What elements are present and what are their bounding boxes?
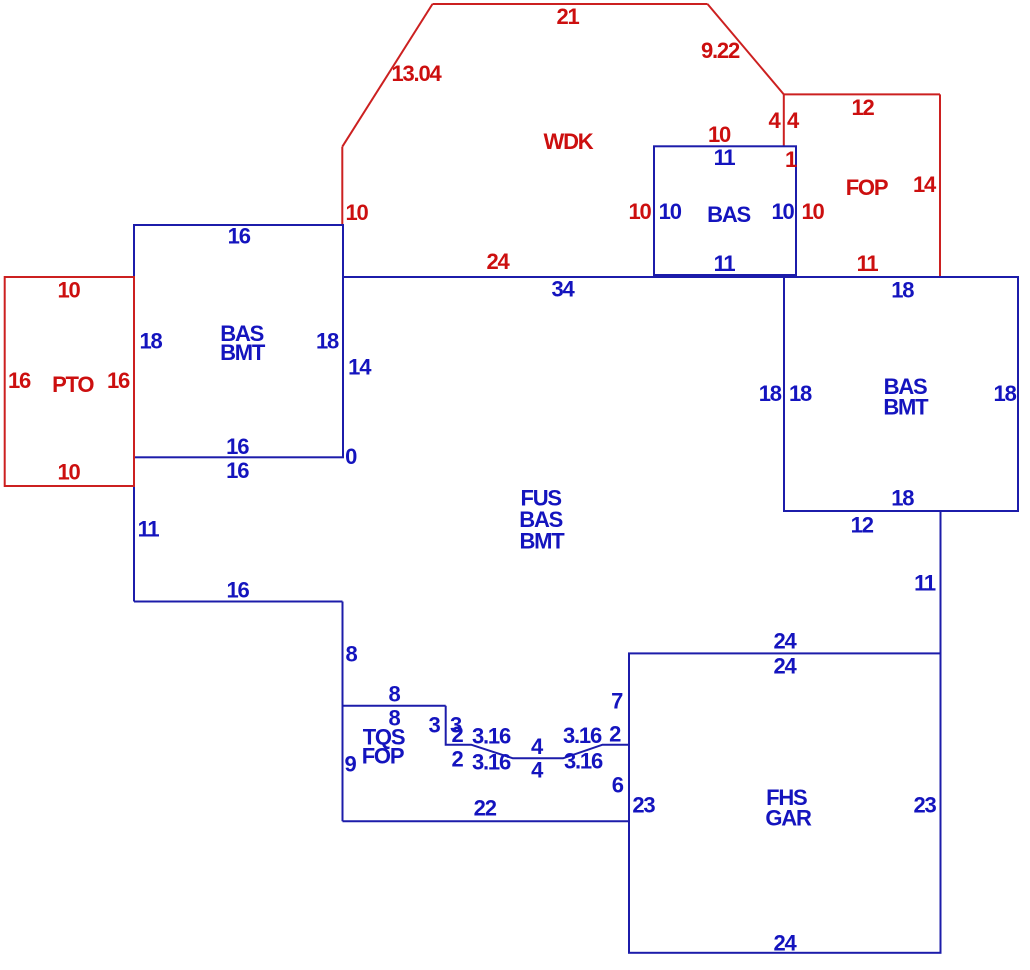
svg-text:PTO: PTO [52,372,94,397]
wire red WDK left vertical (10) [341,147,343,225]
svg-text:11: 11 [138,517,160,542]
wire red WDK left diagonal [342,4,432,147]
svg-text:2: 2 [609,722,621,747]
svg-text:13.04: 13.04 [391,61,442,86]
wire dip polyline 3 2 3.16 4 3.16 2 [446,706,629,759]
wire red WDK right vertical (4) [783,94,785,146]
svg-text:3.16: 3.16 [563,723,602,748]
svg-text:21: 21 [556,4,579,29]
svg-text:3: 3 [428,713,440,738]
svg-text:GAR: GAR [765,806,812,831]
wire red WDK top [433,3,708,5]
node BAS BMT left box [134,225,343,457]
svg-text:4: 4 [531,734,544,759]
wire horizontal 16 [134,601,343,603]
svg-text:10: 10 [628,199,651,224]
svg-text:11: 11 [714,251,736,276]
svg-text:18: 18 [316,329,339,354]
svg-text:16: 16 [8,368,31,393]
svg-text:11: 11 [857,251,879,276]
wire TQS bottom 22 [343,820,630,822]
svg-text:3.16: 3.16 [472,750,511,775]
svg-text:18: 18 [891,278,914,303]
svg-text:4: 4 [531,758,544,783]
svg-text:16: 16 [107,368,130,393]
svg-text:14: 14 [913,172,937,197]
svg-text:24: 24 [486,249,510,274]
svg-text:10: 10 [659,199,682,224]
svg-text:23: 23 [632,793,655,818]
svg-text:18: 18 [789,381,812,406]
svg-text:16: 16 [226,434,249,459]
svg-text:18: 18 [139,329,162,354]
svg-text:7: 7 [611,689,623,714]
svg-text:1: 1 [785,147,797,172]
svg-text:10: 10 [771,199,794,224]
svg-text:10: 10 [801,199,824,224]
wire vertical 11 right [940,511,942,653]
svg-text:16: 16 [226,458,249,483]
svg-text:12: 12 [851,95,874,120]
svg-text:16: 16 [226,578,249,603]
svg-text:0: 0 [345,444,357,469]
svg-text:10: 10 [57,460,80,485]
svg-text:24: 24 [773,629,797,654]
svg-text:11: 11 [714,145,736,170]
node PTO rect [5,277,134,486]
svg-text:8: 8 [345,642,357,667]
svg-text:3.16: 3.16 [564,749,603,774]
svg-text:FOP: FOP [846,175,888,200]
svg-text:8: 8 [388,682,400,707]
svg-text:2: 2 [451,722,463,747]
wire TQS top 8 [343,705,446,707]
wire red WDK right diagonal [708,4,784,94]
svg-text:18: 18 [891,486,914,511]
svg-text:BMT: BMT [883,395,929,420]
svg-text:12: 12 [851,513,874,538]
svg-text:9: 9 [344,752,356,777]
svg-text:9.22: 9.22 [701,38,740,63]
svg-text:11: 11 [914,571,936,596]
svg-text:24: 24 [773,931,797,956]
svg-text:3.16: 3.16 [472,724,511,749]
svg-text:WDK: WDK [544,129,594,154]
svg-text:10: 10 [345,200,368,225]
svg-text:BMT: BMT [220,340,266,365]
node FHS GAR box [629,653,941,952]
node BAS box [654,146,796,275]
svg-text:22: 22 [474,796,497,821]
svg-text:BAS: BAS [707,202,750,227]
svg-text:24: 24 [773,654,797,679]
svg-text:FOP: FOP [362,744,404,769]
wire vertical 8 and 9 [342,602,344,822]
svg-text:BMT: BMT [519,528,565,553]
svg-text:4: 4 [768,108,781,133]
svg-text:2: 2 [451,747,463,772]
wire vertical 11 left [133,457,135,601]
svg-text:6: 6 [612,773,624,798]
svg-text:4: 4 [787,108,800,133]
svg-text:34: 34 [551,277,575,302]
svg-text:10: 10 [57,278,80,303]
svg-text:23: 23 [913,793,936,818]
svg-text:10: 10 [708,122,731,147]
svg-text:14: 14 [348,355,372,380]
svg-text:16: 16 [228,224,251,249]
wire main horizontal (34) [342,276,1018,278]
node BAS BMT right box [784,277,1018,511]
svg-text:18: 18 [759,381,782,406]
svg-text:18: 18 [994,381,1017,406]
wire red FOP top (12) [784,93,940,95]
wire red FOP right (14) [939,94,941,278]
